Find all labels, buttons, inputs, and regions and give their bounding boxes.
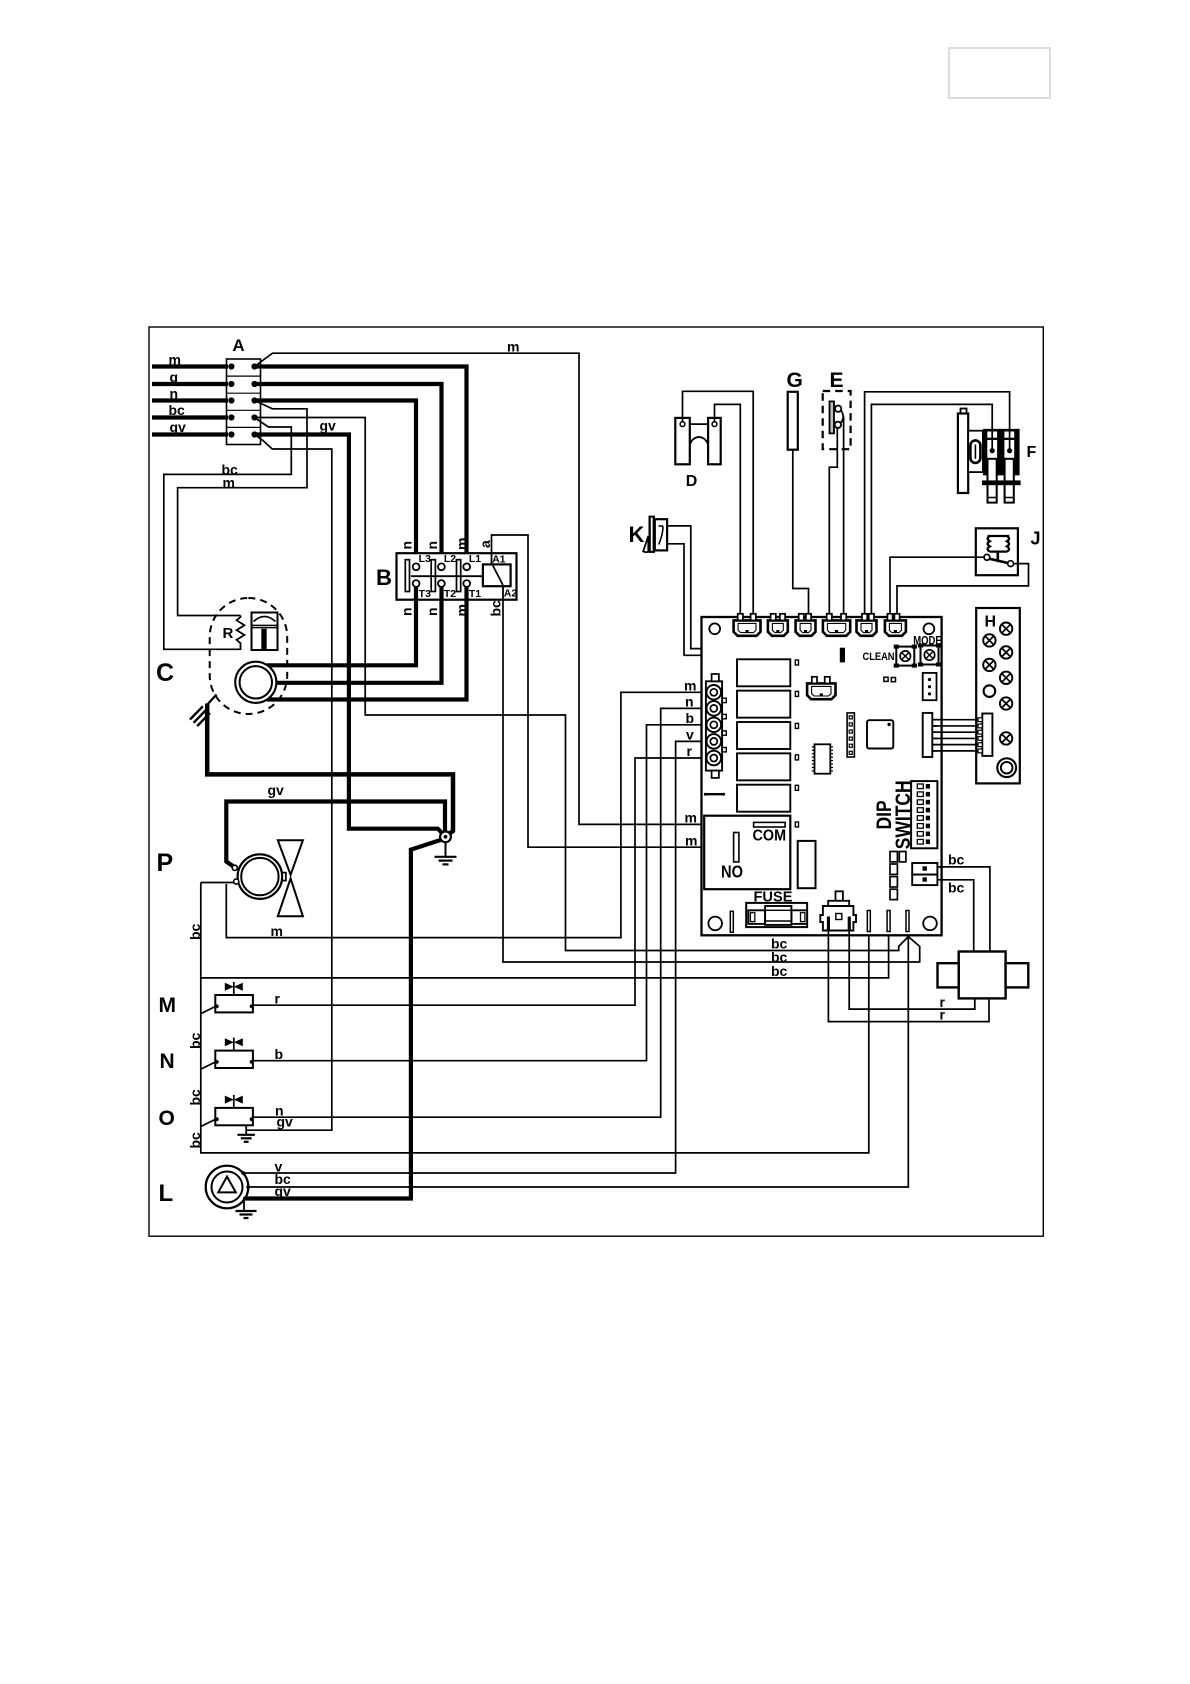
- wire m phase A row1 to contactor L1: [255, 367, 467, 564]
- ribbon wires board I to display board H: [978, 718, 982, 722]
- pressure switch terminal on board I: [912, 863, 937, 875]
- svg-text:m: m: [684, 678, 696, 694]
- wire gv from A row5 to earth point: [255, 435, 444, 835]
- svg-text:gv: gv: [275, 1183, 292, 1199]
- svg-text:b: b: [686, 710, 695, 726]
- main relay COM NO on board I: [704, 816, 790, 890]
- wire bc stub to valve O: [201, 1119, 216, 1126]
- board I connector 4: [823, 620, 850, 635]
- main switch K: [649, 516, 656, 553]
- wire electrode E to board I connector 4: [829, 428, 837, 616]
- earth symbol at earth node: [445, 843, 447, 857]
- svg-text:NO: NO: [721, 862, 743, 882]
- service connector on board I: [923, 673, 937, 700]
- gas valve N: [215, 1051, 253, 1068]
- wire room thermostat J pin2 to board I connector 6: [897, 564, 1029, 616]
- wire bc board terminal to pressure switch: [937, 867, 990, 952]
- svg-text:n: n: [424, 607, 440, 616]
- svg-text:g: g: [170, 369, 179, 385]
- svg-text:C: C: [156, 659, 174, 687]
- svg-text:MODE: MODE: [913, 636, 942, 648]
- board I mounting holes: [709, 623, 720, 634]
- svg-text:A: A: [232, 336, 244, 355]
- svg-text:K: K: [629, 522, 645, 547]
- ignition electrode F right shaft: [1005, 459, 1014, 503]
- lamp on display board H: [984, 685, 996, 697]
- detection electrode E: [823, 391, 851, 449]
- board I connector for switch K: [807, 683, 835, 699]
- wire flow switch D to board I connector 1: [683, 391, 754, 616]
- svg-text:n: n: [685, 694, 694, 710]
- svg-text:T2: T2: [444, 588, 456, 600]
- wire ignition F right to board I connector 5: [865, 392, 1010, 616]
- svg-text:L2: L2: [444, 553, 456, 565]
- label I of board: [840, 648, 845, 663]
- svg-text:L1: L1: [469, 553, 481, 565]
- wire mains n into A: [152, 398, 228, 402]
- room thermostat J: [976, 528, 1018, 575]
- svg-text:n: n: [424, 541, 440, 550]
- svg-text:m: m: [271, 923, 283, 939]
- svg-text:A2: A2: [504, 588, 518, 600]
- buzzer on display board H: [997, 758, 1016, 777]
- display connector on board I: [923, 713, 933, 757]
- svg-text:r: r: [275, 991, 281, 1007]
- wire bc stub to valve M: [201, 1006, 216, 1013]
- wire mains bc into A: [152, 415, 228, 419]
- solder pads on board I: [884, 677, 888, 681]
- jumper pads on board I: [890, 852, 897, 862]
- svg-text:bc: bc: [948, 880, 965, 896]
- burner motor C: [210, 598, 288, 714]
- svg-text:bc: bc: [948, 852, 965, 868]
- IC U1 on board I: [815, 744, 831, 773]
- connector on display board H: [982, 714, 992, 756]
- pump L: [206, 1166, 249, 1209]
- svg-text:L3: L3: [419, 553, 431, 565]
- svg-text:bc: bc: [169, 402, 186, 418]
- board I connector 6: [885, 620, 906, 635]
- svg-text:COM: COM: [753, 828, 787, 845]
- motor C chassis ground: [208, 695, 217, 705]
- svg-text:m: m: [169, 352, 181, 368]
- svg-text:bc: bc: [187, 1032, 203, 1049]
- board I bottom pins: [867, 911, 870, 932]
- wire mains m into A: [152, 364, 228, 368]
- wire b valve N to board I connector: [253, 725, 707, 1061]
- svg-text:gv: gv: [277, 1114, 294, 1130]
- diagram border frame: [149, 327, 1043, 1236]
- fan P blades: [282, 873, 286, 881]
- earth symbol at valve O: [245, 1125, 247, 1134]
- svg-text:R: R: [223, 625, 234, 642]
- svg-text:T3: T3: [419, 588, 431, 600]
- fan P terminals: [232, 865, 237, 870]
- LEDs on display board H: [1000, 623, 1012, 635]
- wire gv pump L to earth point: [245, 840, 441, 1199]
- wire g phase A row2 to contactor L2: [255, 384, 442, 563]
- svg-text:r: r: [687, 743, 693, 759]
- wire gv from A row5 to gas valve O: [246, 435, 332, 1131]
- flow switch D: [675, 418, 690, 464]
- wire n contactor T2 to motor C: [276, 587, 442, 683]
- wire m from A row3 to motor C resistor: [178, 401, 307, 616]
- svg-text:n: n: [399, 607, 415, 616]
- wire a from contactor A1 to relay NO on board I: [492, 535, 735, 847]
- wire r reset button to pressure switch: [849, 929, 975, 1009]
- wire bc from A row4 to board I bottom pin: [255, 418, 909, 951]
- svg-text:SWITCH: SWITCH: [892, 780, 915, 849]
- air pressure switch: [959, 952, 1006, 999]
- svg-text:M: M: [159, 994, 177, 1017]
- wire bc from A row4 to motor C capacitor lead: [164, 418, 291, 650]
- svg-text:bc: bc: [187, 1132, 203, 1149]
- board I connector 3: [796, 620, 816, 635]
- page corner box (decorative): [949, 48, 1050, 98]
- svg-text:G: G: [787, 369, 803, 392]
- svg-text:A1: A1: [492, 554, 506, 566]
- board I connector 1: [734, 620, 761, 635]
- probe G: [788, 392, 798, 450]
- wire m contactor T1 to motor C: [267, 587, 467, 700]
- wire bc from contactor A2 to board I bottom pin: [503, 600, 920, 962]
- wire ignition F left to board I connector 5: [871, 404, 992, 616]
- svg-text:H: H: [985, 614, 997, 631]
- wire bc fan P to gas-valve chain: [201, 882, 234, 884]
- wire n valve O to board I connector: [253, 708, 707, 1117]
- resistor R in motor C: [237, 616, 245, 650]
- earth node: [440, 831, 451, 842]
- ignition electrode F left shaft: [988, 459, 997, 503]
- capacitor in motor C: [252, 613, 278, 651]
- board I connector 5: [857, 620, 877, 635]
- motor C winding circle: [235, 662, 276, 703]
- wire mains gv into A: [152, 432, 228, 436]
- svg-text:m: m: [685, 810, 697, 826]
- wire n phase A row3 to contactor L3: [255, 401, 417, 564]
- wire electrode E pin2 to board I connector 4: [843, 417, 845, 617]
- wire r reset button to pressure switch pin2: [828, 929, 989, 1022]
- svg-text:E: E: [830, 369, 844, 392]
- svg-text:P: P: [157, 849, 174, 877]
- contactor B body: [397, 553, 517, 600]
- svg-text:N: N: [160, 1050, 175, 1073]
- gas valve M: [215, 995, 253, 1012]
- svg-text:m: m: [685, 833, 697, 849]
- svg-text:B: B: [376, 565, 392, 590]
- wire n contactor T3 to motor C: [267, 587, 416, 665]
- wire m from A to relay COM on board I: [255, 353, 755, 824]
- wire switch K to board I connector: [667, 526, 827, 684]
- earth symbol at pump L: [243, 1200, 245, 1211]
- wire v pump L to board I connector: [243, 741, 707, 1173]
- svg-text:m: m: [223, 475, 235, 491]
- DIP switch block on board I: [911, 781, 937, 848]
- wire r valve M to board I connector: [253, 758, 707, 1005]
- svg-text:bc: bc: [187, 1089, 203, 1106]
- wire bc chain down to gas valves M N O and board I: [201, 883, 869, 1153]
- wire mains g into A: [152, 382, 228, 386]
- svg-text:CLEAN: CLEAN: [863, 651, 895, 663]
- svg-text:gv: gv: [170, 419, 187, 435]
- wire bc stub to valve N: [201, 1062, 216, 1069]
- wire bc board terminal to pressure switch pin2: [937, 880, 973, 952]
- control board I: [702, 617, 942, 935]
- wire gv motor C ground to earth point: [207, 704, 453, 835]
- svg-text:m: m: [507, 339, 519, 355]
- reset button on board I: [836, 891, 843, 901]
- capacitor block on board I: [798, 841, 816, 888]
- relays on board I: [737, 659, 790, 686]
- svg-text:b: b: [275, 1046, 284, 1062]
- wire probe G to board I connector 3: [793, 450, 809, 616]
- board I connector 2: [768, 620, 788, 635]
- wire link on board I: [705, 793, 725, 795]
- svg-text:a: a: [477, 540, 493, 548]
- MODE button on board I: [921, 646, 939, 665]
- svg-text:L: L: [159, 1180, 174, 1207]
- pin header on board I: [847, 713, 854, 757]
- svg-text:v: v: [686, 727, 694, 743]
- wire m fan P to board I connector: [226, 692, 707, 937]
- svg-text:F: F: [1027, 444, 1037, 461]
- svg-text:m: m: [454, 538, 470, 550]
- wire flow switch D pin2 to board I connector 1: [715, 404, 741, 616]
- wire bc branch to board I bottom pin: [201, 932, 889, 978]
- svg-text:bc: bc: [771, 963, 788, 979]
- IC U2 on board I: [867, 720, 893, 748]
- display board H: [976, 608, 1020, 783]
- svg-text:O: O: [159, 1107, 175, 1130]
- svg-text:gv: gv: [320, 418, 337, 434]
- svg-text:r: r: [940, 1007, 946, 1023]
- contactor B pole pins: [413, 563, 420, 570]
- ignition electrodes F: [961, 409, 967, 415]
- board I low-voltage connector m n b v r: [706, 681, 722, 770]
- svg-text:gv: gv: [268, 782, 285, 798]
- wire bc pump L to board I bottom pin: [248, 937, 908, 1187]
- contactor B coil: [483, 564, 511, 586]
- wire switch K pin2 to board I connector: [667, 544, 814, 684]
- CLEAN button on board I: [896, 647, 914, 666]
- fan motor P: [238, 854, 283, 899]
- contactor B crossbar: [411, 575, 483, 577]
- svg-text:J: J: [1031, 529, 1041, 549]
- svg-text:D: D: [686, 473, 698, 490]
- svg-text:n: n: [170, 386, 179, 402]
- svg-text:bc: bc: [488, 600, 504, 617]
- svg-text:n: n: [399, 541, 415, 550]
- svg-text:T1: T1: [469, 588, 481, 600]
- terminal block A: [227, 359, 261, 445]
- wire gv fan P to earth point: [226, 802, 445, 867]
- test pin on board I: [730, 911, 733, 932]
- wire room thermostat J to board I connector 6: [890, 557, 984, 616]
- gas valve O: [215, 1108, 253, 1125]
